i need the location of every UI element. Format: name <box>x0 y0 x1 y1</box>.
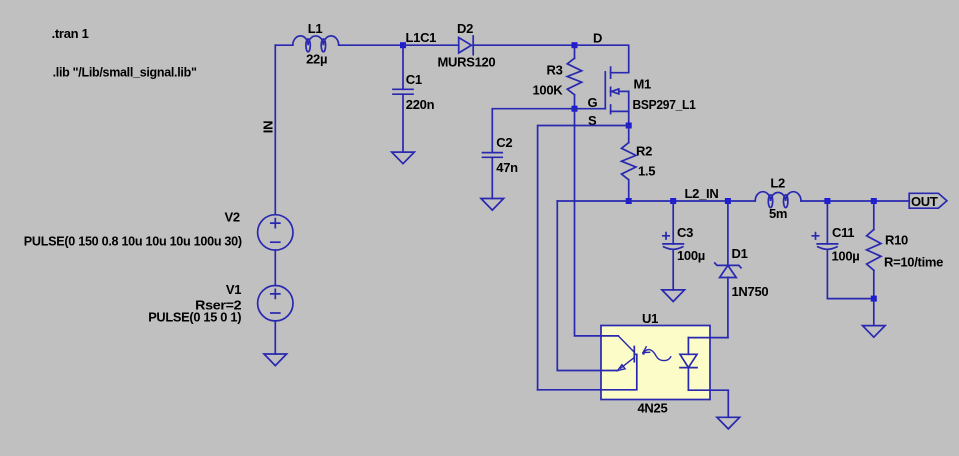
ground below C3 <box>662 290 685 302</box>
node label L2_IN <box>685 186 719 201</box>
wire bottom rail C11 to R10 <box>827 298 873 300</box>
wire diode D2 to node D <box>473 44 574 46</box>
svg-text:D2: D2 <box>457 21 473 36</box>
svg-text:R2: R2 <box>636 144 652 159</box>
spice directive .tran <box>52 26 89 41</box>
wire opto LED cathode to ground <box>688 390 728 417</box>
wire node G down to opto collector <box>575 109 619 336</box>
inductor L1 <box>293 21 339 67</box>
capacitor C11 100u <box>812 198 859 299</box>
svg-text:D: D <box>593 31 602 46</box>
ground below C1 <box>392 152 415 164</box>
wire V1 to ground <box>274 321 276 354</box>
svg-text:U1: U1 <box>642 311 658 326</box>
wire V2 to V1 <box>274 250 276 286</box>
diode D2 MURS120 <box>438 21 496 70</box>
svg-text:M1: M1 <box>634 77 652 92</box>
svg-text:C1: C1 <box>406 72 422 87</box>
node S <box>588 113 632 129</box>
node R2 bottom on L2_IN rail <box>626 198 632 204</box>
zener diode D1 1N750 <box>715 198 769 338</box>
svg-text:47n: 47n <box>496 160 518 175</box>
wire L2_IN rail <box>557 200 755 202</box>
svg-text:L2_IN: L2_IN <box>685 186 719 201</box>
ground below opto <box>717 417 740 429</box>
svg-text:100µ: 100µ <box>677 248 705 263</box>
port flag OUT <box>909 193 947 209</box>
resistor R2 1.5 <box>622 126 656 202</box>
wire gate <box>575 108 606 110</box>
svg-text:BSP297_L1: BSP297_L1 <box>633 97 696 112</box>
svg-text:IN: IN <box>260 121 275 133</box>
svg-text:22µ: 22µ <box>306 52 327 67</box>
capacitor C2 47n <box>483 135 519 199</box>
spice directive .lib <box>53 65 197 80</box>
resistor R3 100K <box>533 45 582 108</box>
svg-text:V1: V1 <box>226 282 241 297</box>
voltage source V2 <box>24 210 293 251</box>
wire node G to capacitor C2 <box>492 109 574 153</box>
wire IN net vertical <box>274 45 276 215</box>
wire node S to left drop <box>538 126 629 390</box>
svg-text:.tran 1: .tran 1 <box>52 26 89 41</box>
wire top rail left segment <box>275 44 293 46</box>
opto phototransistor collector <box>618 336 634 352</box>
svg-text:V2: V2 <box>224 210 239 225</box>
svg-text:R10: R10 <box>885 233 908 248</box>
svg-text:PULSE(0 15 0 1): PULSE(0 15 0 1) <box>148 310 241 325</box>
wire node to ground <box>873 299 875 326</box>
svg-text:MURS120: MURS120 <box>438 55 496 70</box>
ground below V1 <box>264 354 287 366</box>
wire node D to mosfet drain <box>575 45 629 72</box>
voltage source V1 <box>148 282 293 325</box>
svg-text:OUT: OUT <box>911 194 938 209</box>
wire opto base to left drop <box>538 389 601 391</box>
wire node L1C1 to diode D2 <box>403 44 459 46</box>
svg-text:100K: 100K <box>533 83 564 98</box>
wire L2_IN left drop to opto emitter <box>557 201 617 371</box>
svg-text:L1C1: L1C1 <box>406 30 437 45</box>
svg-text:L2: L2 <box>770 176 785 191</box>
capacitor C1 220n <box>393 45 435 152</box>
resistor R10 R=10/time <box>867 198 944 299</box>
mosfet M1 BSP297_L1 <box>605 67 695 125</box>
svg-text:4N25: 4N25 <box>638 401 668 416</box>
svg-text:220n: 220n <box>406 97 435 112</box>
opto phototransistor base lead <box>601 354 637 390</box>
svg-text:G: G <box>588 95 598 110</box>
opto light arrow <box>642 347 671 361</box>
svg-text:100µ: 100µ <box>832 249 860 264</box>
svg-text:1N750: 1N750 <box>732 284 769 299</box>
capacitor C3 100u <box>663 198 705 290</box>
wire D1 to opto LED anode <box>688 337 728 339</box>
svg-text:R=10/time: R=10/time <box>884 255 943 270</box>
node D <box>572 31 603 49</box>
node G <box>572 95 598 112</box>
svg-text:PULSE(0 150 0.8 10u 10u 10u 10: PULSE(0 150 0.8 10u 10u 10u 100u 30) <box>24 234 242 249</box>
svg-text:L1: L1 <box>308 21 323 36</box>
svg-text:.lib "/Lib/small_signal.lib": .lib "/Lib/small_signal.lib" <box>53 65 197 80</box>
opto phototransistor base bar <box>633 347 635 362</box>
svg-text:C11: C11 <box>832 225 854 240</box>
optocoupler U1 4N25 body <box>601 311 710 416</box>
inductor L2 5m <box>755 176 801 222</box>
svg-text:R3: R3 <box>547 63 563 78</box>
node L1C1 <box>400 30 436 48</box>
node label IN (rotated) <box>260 121 275 133</box>
svg-text:C3: C3 <box>677 225 693 240</box>
wire L2 to OUT <box>801 200 909 202</box>
opto LED <box>680 338 697 391</box>
node bottom rail <box>871 296 877 302</box>
svg-text:5m: 5m <box>769 206 787 221</box>
ground below R10 <box>863 326 886 338</box>
svg-text:D1: D1 <box>732 246 748 261</box>
svg-text:1.5: 1.5 <box>638 164 655 179</box>
opto phototransistor emitter with arrow <box>618 358 635 371</box>
ground below C2 <box>481 199 504 211</box>
wire L1 to node L1C1 <box>339 44 403 46</box>
svg-text:C2: C2 <box>496 135 512 150</box>
